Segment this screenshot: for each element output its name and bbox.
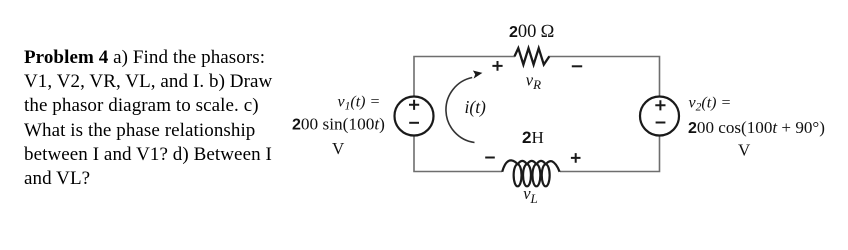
wire bottom-left segment — [414, 136, 502, 172]
inductor L coil lead-in arc — [502, 160, 518, 171]
inductor loop 1 — [514, 164, 522, 186]
current arrow head — [473, 71, 483, 79]
svg-text:vR: vR — [526, 70, 541, 92]
V2 minus sign — [656, 122, 666, 124]
inductor loop 4 — [542, 164, 550, 186]
resistor polarity minus — [572, 65, 582, 67]
V1 minus sign — [409, 122, 419, 124]
inductor loop 3 — [532, 164, 540, 186]
svg-text:200 sin(100t): 200 sin(100t) — [292, 114, 385, 133]
V1 plus sign — [409, 100, 419, 110]
svg-text:v1(t) =: v1(t) = — [338, 93, 381, 112]
current arrow arc i(t) — [446, 78, 475, 143]
svg-text:200 cos(100t + 90°): 200 cos(100t + 90°) — [688, 118, 825, 137]
resistor polarity plus — [492, 61, 502, 71]
resistor R (200 ohm) zigzag — [515, 48, 550, 64]
svg-text:V: V — [332, 139, 345, 158]
inductor coil bridge 1 — [518, 161, 527, 165]
inductor polarity minus — [485, 157, 495, 159]
wire top-left segment — [414, 57, 515, 97]
wire bottom-right segment — [560, 136, 660, 172]
wire top-right segment — [549, 57, 660, 97]
svg-text:2H: 2H — [522, 128, 544, 147]
svg-text:V: V — [738, 140, 751, 159]
inductor coil bridge 3 — [536, 161, 545, 165]
inductor loop 2 — [523, 164, 531, 186]
voltage source V1 circle — [395, 97, 434, 136]
voltage source V2 circle — [640, 97, 679, 136]
svg-text:200Ω: 200Ω — [509, 22, 555, 42]
inductor polarity plus — [571, 153, 581, 163]
V2 plus sign — [655, 100, 665, 110]
inductor coil bridge 2 — [527, 161, 536, 165]
svg-text:vL: vL — [523, 184, 538, 206]
svg-text:i(t): i(t) — [465, 97, 487, 117]
svg-text:v2(t) =: v2(t) = — [689, 94, 732, 113]
inductor coil lead-out arc — [546, 161, 560, 172]
